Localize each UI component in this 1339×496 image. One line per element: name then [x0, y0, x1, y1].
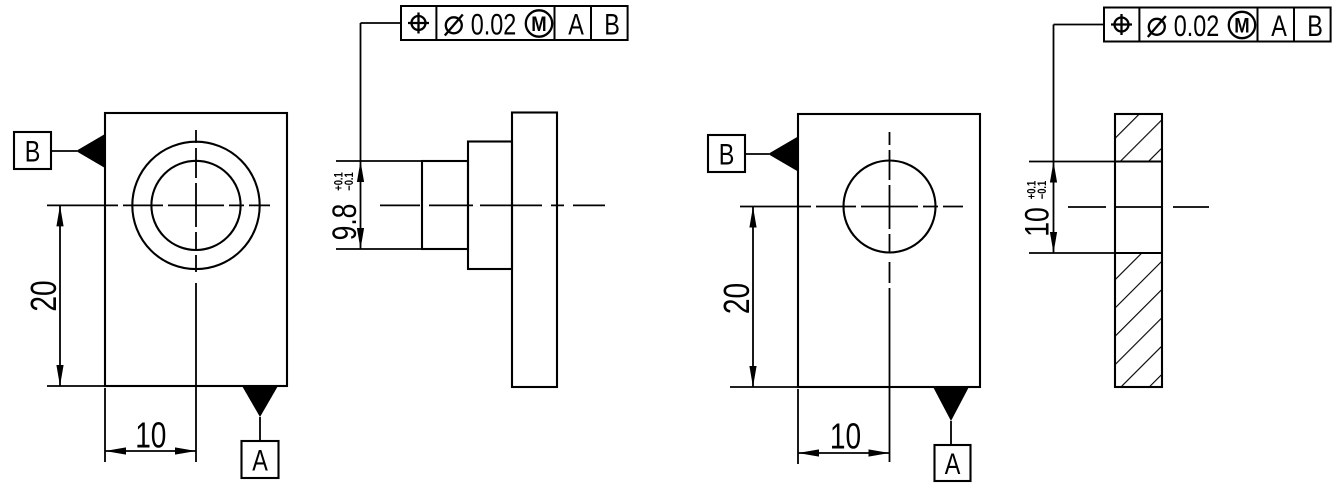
svg-text:10: 10 — [135, 415, 166, 455]
dimension 10 (right) — [798, 389, 890, 464]
side view flange plate — [512, 113, 557, 388]
dimension 10 (left) — [105, 388, 196, 462]
svg-text:0.02: 0.02 — [1174, 9, 1220, 42]
svg-text:9.8: 9.8 — [326, 204, 364, 241]
hole upper edge line in section — [1115, 160, 1162, 162]
dimension 20 (left) — [24, 205, 105, 386]
svg-text:A: A — [568, 8, 584, 41]
horizontal centerline (right front view) — [740, 206, 963, 208]
svg-text:A: A — [1271, 9, 1287, 42]
diameter symbol — [446, 17, 462, 33]
svg-text:M: M — [531, 13, 546, 36]
diameter symbol — [1149, 19, 1165, 35]
position symbol — [1115, 18, 1129, 32]
hatching upper block — [1116, 115, 1162, 161]
hole lower edge line in section — [1115, 252, 1162, 254]
side view small cylinder (boss 9.8) — [422, 161, 468, 249]
datum A symbol (right) — [934, 388, 971, 481]
datum B symbol (right) — [708, 135, 798, 172]
hole circle (right) — [844, 161, 936, 253]
datum B symbol (left) — [14, 132, 105, 169]
svg-text:−0.1: −0.1 — [343, 172, 356, 190]
front view rectangle (right part) — [798, 114, 980, 387]
svg-text:B: B — [1307, 9, 1323, 42]
vertical centerline (right front view, extension for 10 dim) — [889, 132, 891, 462]
feature control frame (right) — [1054, 8, 1331, 43]
dimension 10 with FCF leader (right) — [1019, 25, 1115, 254]
front view rectangle (left part) — [105, 113, 287, 386]
svg-text:B: B — [604, 8, 620, 41]
side view middle cylinder — [468, 142, 512, 270]
position symbol — [412, 16, 426, 30]
dimension 20 (right) — [717, 207, 798, 388]
hatching lower block — [1116, 254, 1162, 387]
svg-text:B: B — [719, 138, 735, 171]
counterbore outer circle — [132, 142, 259, 269]
svg-text:20: 20 — [24, 280, 64, 311]
svg-text:10: 10 — [830, 416, 861, 456]
datum A symbol (left) — [242, 387, 279, 478]
modifier circled M — [526, 10, 552, 36]
svg-text:0.02: 0.02 — [471, 8, 517, 41]
svg-text:M: M — [1234, 15, 1249, 38]
horizontal centerline (left front view) — [47, 204, 270, 206]
section view outline (right) — [1115, 114, 1162, 387]
feature control frame (left) — [361, 6, 628, 41]
horizontal centerline (left side view) — [380, 204, 605, 206]
svg-text:−0.1: −0.1 — [1036, 181, 1049, 199]
svg-text:20: 20 — [717, 283, 757, 314]
svg-text:B: B — [25, 135, 41, 168]
horizontal centerline (right section view) — [1068, 206, 1209, 208]
hole inner circle — [151, 161, 240, 250]
dimension 9.8 with FCF leader (left) — [326, 23, 422, 249]
svg-text:A: A — [945, 447, 961, 480]
vertical centerline (left front view, also extension line for 10 dim) — [195, 130, 197, 462]
svg-text:10: 10 — [1019, 207, 1057, 237]
modifier circled M — [1229, 12, 1255, 38]
svg-text:A: A — [252, 444, 268, 477]
